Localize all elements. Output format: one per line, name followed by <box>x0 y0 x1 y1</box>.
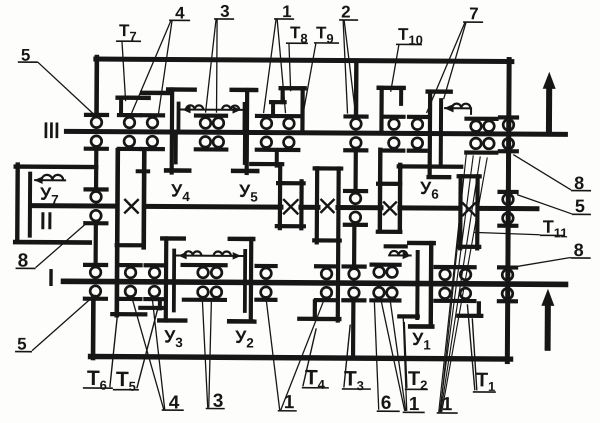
wire U1 coil bar <box>386 244 406 248</box>
coupling X1 on shaft II <box>124 199 138 213</box>
coupling X4 box right wall <box>398 165 403 231</box>
wire frame right <box>507 60 509 362</box>
coupling X4 box top <box>378 182 400 186</box>
wire U4 inner leg <box>177 104 181 130</box>
wire drum T6 vertical <box>117 150 118 315</box>
coupling X2 on shaft II <box>283 199 298 214</box>
wire U6 inner leg <box>439 100 443 166</box>
coupling X4 box left wall <box>378 150 383 231</box>
brake T1 drum foot <box>458 314 481 318</box>
wire drum T6 foot <box>112 312 145 316</box>
clutch U4 top bar <box>168 87 194 92</box>
wire U5 inner leg lower <box>243 135 247 163</box>
coupling X5 on shaft II <box>462 202 476 216</box>
gear z10 on shaft III <box>280 114 299 118</box>
brake T3 drum wall <box>336 169 341 321</box>
wire T9 right leg <box>300 88 304 130</box>
wire drum T5 bottom bar <box>117 243 143 247</box>
clutch U6 foot <box>429 175 449 180</box>
clutch U6 top bar <box>428 89 451 94</box>
wire T9 left leg <box>281 88 285 102</box>
brake T1 drum leg <box>477 303 481 315</box>
label shaft I <box>49 271 52 284</box>
brake T10 left wall <box>379 88 383 131</box>
wire frame left lower <box>91 297 96 358</box>
brake T3 drum foot <box>317 317 339 322</box>
svg-text:3: 3 <box>220 2 230 21</box>
svg-text:7: 7 <box>469 4 479 23</box>
wire T8 step bar <box>271 100 284 104</box>
wire stack355 bottom <box>351 301 356 358</box>
clutch U3 top bar <box>162 236 183 241</box>
wire shaft II seg1b <box>146 204 281 210</box>
gear z20 pair above I <box>183 263 226 267</box>
gear z4 above III <box>119 113 140 117</box>
wire shaft II seg3 <box>338 205 381 210</box>
gear z8 pair above III <box>196 113 226 117</box>
coil U3-U2 spring <box>176 255 244 257</box>
wire U6 stair bar <box>399 164 461 169</box>
gear z6 on shaft I <box>121 263 141 267</box>
gear z23b pair below I <box>374 287 385 298</box>
gear z7 on shaft I <box>146 263 164 267</box>
coupling X5 box right wall <box>475 176 480 248</box>
gear z22 on shaft I <box>316 264 337 268</box>
gear z3 on shaft I <box>85 263 106 267</box>
wire shaft II seg5 <box>478 206 537 211</box>
wire stack508 seg2 <box>506 227 510 265</box>
clutch U1 top bar <box>409 241 433 246</box>
wire U4 inner leg lower <box>174 135 178 163</box>
clutch U7 bottom bar <box>15 240 89 245</box>
wire T9 top bar <box>281 86 305 91</box>
wire T7 left leg <box>119 98 123 114</box>
wire frame left upper <box>94 57 99 114</box>
gear z24 on shaft I <box>436 265 455 269</box>
clutch U3 foot <box>159 318 185 323</box>
wire stack355 seg2 <box>352 226 356 263</box>
wire frame bottom <box>91 357 511 360</box>
coil U1 spring <box>388 254 411 256</box>
clutch U2 wall <box>249 239 254 321</box>
wire step bar to X2 box <box>251 162 282 166</box>
coupling X5 box top <box>459 174 480 178</box>
gear z18 on shaft II <box>500 190 517 194</box>
brake T10 top bar <box>379 86 404 91</box>
coupling X5 box left wall <box>458 176 463 248</box>
wire shaft II seg1a <box>31 203 117 209</box>
coupling X5 box bottom <box>458 245 479 249</box>
wire stack355 top <box>354 61 359 115</box>
clutch U5 top bar <box>232 88 256 93</box>
gear z13 on shaft I <box>344 264 365 268</box>
brake T4 drum foot <box>299 317 315 321</box>
gear z2 on shaft II <box>86 187 107 191</box>
gear z9 on shaft III <box>257 114 276 118</box>
wire step below z9 <box>275 151 279 165</box>
wire shaft III <box>66 131 565 134</box>
svg-text:2: 2 <box>341 3 351 22</box>
wire shaft II end disc <box>28 174 32 236</box>
arrow output shaft III <box>546 87 552 133</box>
brake T10 right leg <box>399 88 403 104</box>
clutch U3 wall <box>164 238 169 320</box>
gear z8 pair below III <box>200 136 211 147</box>
clutch U4 foot <box>166 168 189 173</box>
brake T7 drum upper bar <box>142 91 169 96</box>
clutch U2 foot <box>229 319 254 324</box>
gear z15 on shaft III <box>409 115 426 119</box>
wire U2 inner leg <box>243 251 247 311</box>
gear z19 on shaft I <box>499 265 516 269</box>
clutch U1 bottom bar <box>410 324 432 329</box>
gear z25 on shaft I <box>457 265 475 269</box>
svg-text:5: 5 <box>17 335 27 354</box>
coil U4-U5 spring <box>180 109 244 111</box>
coupling X3 box left wall <box>315 168 320 242</box>
gear z16 twin above III <box>467 117 497 121</box>
gear z16b twin below III <box>471 138 482 149</box>
coupling X2 box right wall <box>299 181 303 228</box>
clutch U7 wall <box>15 165 20 242</box>
coil U7 spring <box>34 179 66 181</box>
wire drum T5 vertical <box>141 150 146 247</box>
wire drum T5 stair bar <box>140 306 161 310</box>
gear z4b below III <box>124 136 135 147</box>
clutch U7 top bar <box>16 164 96 169</box>
coupling X3 on shaft II <box>320 199 334 213</box>
gear z11 on shaft III <box>346 114 367 118</box>
coupling X4 on shaft II <box>383 201 397 215</box>
label shaft II <box>41 214 44 228</box>
wire U1 inner leg <box>415 252 419 318</box>
wire shaft II seg2 <box>301 205 318 210</box>
gear z14 on shaft III <box>385 115 404 119</box>
wire shaft I <box>64 281 566 284</box>
coupling X4 box bottom <box>378 230 400 234</box>
gear z12 on shaft II <box>345 189 366 193</box>
coupling X3 box top <box>315 166 341 170</box>
gear z20b pair below I <box>198 287 209 298</box>
gear z17 on shaft III <box>500 115 517 119</box>
gear z23 pair above I <box>372 263 400 267</box>
clutch U4 wall <box>170 89 175 172</box>
label shaft III <box>45 124 48 137</box>
gear z5b below III <box>147 136 158 147</box>
wire T8 step leg <box>271 102 275 114</box>
wire stack355 seg1 <box>353 152 357 191</box>
wire U5 inner leg <box>243 104 247 130</box>
wire shaft II seg4 <box>400 205 460 210</box>
brake T4 drum leg <box>313 301 317 318</box>
brake T7 drum bar <box>118 95 149 100</box>
clutch U5 wall <box>245 90 250 173</box>
coupling X3 box bottom <box>314 238 339 242</box>
wire drum T5 stair leg <box>158 299 162 308</box>
wire stack96 seg1 <box>94 150 98 188</box>
clutch U2 top bar <box>230 237 253 242</box>
gear z1 on shaft III <box>86 113 107 117</box>
coupling X2 box bottom <box>277 224 304 228</box>
svg-text:5: 5 <box>575 196 585 216</box>
wire stack508 seg1 <box>506 153 510 193</box>
wire frame top <box>96 59 512 62</box>
svg-text:8: 8 <box>574 240 584 260</box>
gear z21 on shaft I <box>257 264 276 268</box>
coupling X2 box left wall <box>278 164 283 228</box>
coupling X2 box top <box>278 181 303 185</box>
wire drum T5 upper stub <box>138 169 148 173</box>
wire U1 foot bar <box>399 314 417 318</box>
wire stack96 seg2 <box>94 224 98 261</box>
arrow input shaft I <box>545 303 551 351</box>
clutch U5 foot <box>233 169 257 174</box>
gear z5 above III <box>142 113 163 117</box>
clutch U1 wall <box>429 243 434 326</box>
wire U3 inner leg <box>172 251 176 311</box>
clutch U6 wall <box>428 92 433 175</box>
coil U6 spring <box>444 107 470 109</box>
